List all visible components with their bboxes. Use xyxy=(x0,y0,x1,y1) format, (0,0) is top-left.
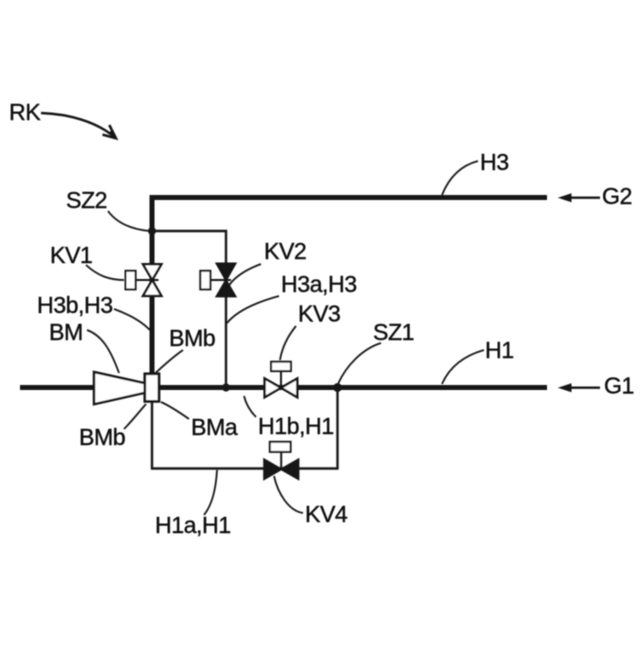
arrow: RK pointer xyxy=(41,113,116,138)
wire: pipe H3 with vertical drop SZ2 line xyxy=(152,198,547,377)
wire: leader KV4 xyxy=(274,476,303,513)
svg-text:KV2: KV2 xyxy=(264,238,306,264)
mixer BM funnel xyxy=(94,372,145,404)
wire: leader KV3 xyxy=(280,326,296,360)
mixer body BMa rectangle xyxy=(145,374,159,402)
svg-text:KV3: KV3 xyxy=(298,301,340,327)
svg-text:H1a,H1: H1a,H1 xyxy=(155,512,231,538)
wire: leader SZ1 xyxy=(338,343,381,384)
node: KV2 branch meets H1 xyxy=(222,384,230,392)
svg-text:H1b,H1: H1b,H1 xyxy=(258,413,334,439)
svg-text:G2: G2 xyxy=(602,183,632,209)
node SZ1 junction dot xyxy=(333,383,342,392)
wire: leader H1 xyxy=(442,350,484,384)
svg-text:BMa: BMa xyxy=(191,414,238,440)
wire: leader SZ2 xyxy=(108,211,149,231)
svg-text:SZ1: SZ1 xyxy=(373,319,414,345)
wire: leader H1b,H1 xyxy=(244,396,256,417)
wire: leader H3a,H3 xyxy=(227,296,279,323)
wire: leader H3 xyxy=(442,161,478,195)
svg-text:RK: RK xyxy=(9,99,41,125)
wire: pipe H1 main horizontal xyxy=(20,385,547,390)
valve KV1 (open, vertical) xyxy=(126,264,162,296)
wire: leader H3b,H3 xyxy=(114,309,150,330)
valve KV3 (open, horizontal) xyxy=(265,362,298,398)
svg-text:G1: G1 xyxy=(604,373,634,399)
svg-text:BM: BM xyxy=(49,319,83,345)
svg-text:KV1: KV1 xyxy=(50,242,92,268)
svg-text:BMb: BMb xyxy=(79,424,125,450)
arrow G1 inlet xyxy=(558,383,600,392)
wire: leader BM xyxy=(87,330,119,373)
valve KV2 (solid, vertical) xyxy=(200,264,235,297)
svg-text:BMb: BMb xyxy=(169,325,215,351)
svg-text:H3b,H3: H3b,H3 xyxy=(37,292,113,318)
wire: leader KV2 xyxy=(228,264,261,287)
svg-text:H3a,H3: H3a,H3 xyxy=(281,271,357,297)
svg-text:H3: H3 xyxy=(480,149,509,175)
wire: leader KV1 xyxy=(86,265,124,280)
valve KV4 (solid, horizontal) xyxy=(264,442,298,479)
wire: leader BMb top xyxy=(155,350,183,374)
svg-text:H1: H1 xyxy=(485,337,514,363)
wire: branch H1a bottom loop xyxy=(152,387,338,469)
arrow G2 inlet xyxy=(558,193,600,202)
wire: leader BMb bottom xyxy=(124,404,146,429)
svg-text:SZ2: SZ2 xyxy=(66,187,107,213)
wire: leader BMa xyxy=(161,402,189,419)
node SZ2 junction dot xyxy=(148,227,156,235)
wire: branch to KV2 (H3a) xyxy=(152,231,226,387)
wire: leader H1a,H1 xyxy=(204,470,217,515)
svg-text:KV4: KV4 xyxy=(305,501,348,527)
